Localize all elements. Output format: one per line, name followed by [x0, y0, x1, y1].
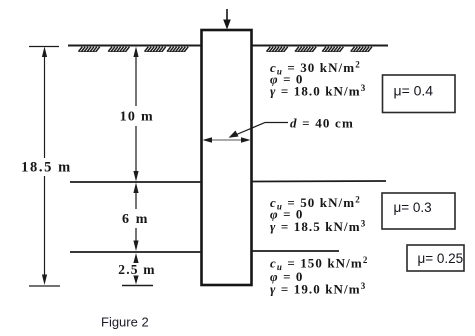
dimension 18.5 m bottom tick: [29, 285, 60, 287]
label d = 40 cm: [290, 116, 354, 131]
svg-text:μ= 0.3: μ= 0.3: [394, 200, 432, 215]
soil layer line 2 right segment: [252, 180, 386, 183]
mu box 1: [383, 75, 456, 113]
diameter double arrow inside pile: [203, 137, 251, 143]
soil text layer 2: [270, 195, 366, 235]
mu box 2: [382, 193, 455, 229]
dimension 10 m line and arrows: [133, 47, 138, 182]
load arrow: [223, 9, 231, 30]
svg-text:Figure 2: Figure 2: [101, 315, 149, 330]
svg-text:18.5 m: 18.5 m: [21, 160, 72, 176]
dimension 18.5 m top tick: [29, 46, 59, 48]
svg-text:γ = 18.5 kN/m3: γ = 18.5 kN/m3: [270, 219, 366, 235]
svg-text:μ= 0.25: μ= 0.25: [418, 251, 464, 266]
svg-text:γ = 19.0 kN/m3: γ = 19.0 kN/m3: [270, 281, 366, 297]
dimension 18.5 m line and arrows: [42, 47, 47, 286]
soil layer line 2 left segment: [70, 181, 201, 183]
ground line left segment: [68, 45, 201, 47]
soil text layer 1: [270, 60, 366, 99]
label 2.5 m: [118, 262, 156, 277]
svg-text:6 m: 6 m: [122, 212, 149, 227]
caption Figure 2: [101, 315, 149, 330]
ground line right segment: [252, 45, 388, 47]
svg-text:2.5 m: 2.5 m: [118, 262, 156, 277]
dimension 2.5 m bottom tick: [122, 285, 153, 287]
svg-text:μ= 0.4: μ= 0.4: [394, 83, 434, 99]
mu box 3: [407, 245, 464, 271]
label 10 m: [120, 110, 154, 125]
svg-text:d = 40 cm: d = 40 cm: [290, 116, 354, 131]
dimension 2.5 m arrows: [133, 253, 138, 285]
label 6 m: [122, 212, 149, 227]
soil layer line 3 right segment: [252, 250, 339, 252]
pile P1: [202, 30, 252, 285]
soil text layer 3: [270, 255, 368, 297]
svg-text:γ = 18.0 kN/m3: γ = 18.0 kN/m3: [270, 83, 366, 99]
ground hatch clusters: [79, 47, 372, 52]
label 18.5 m: [21, 160, 72, 176]
soil layer line 3 left segment: [70, 251, 201, 253]
svg-text:10 m: 10 m: [120, 110, 154, 125]
leader line for d: [229, 123, 289, 138]
dimension 6 m line and arrows: [133, 183, 138, 252]
